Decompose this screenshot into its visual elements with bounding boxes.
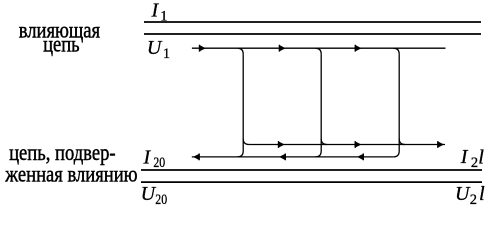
svg-text:1: 1 [163, 46, 170, 62]
svg-text:U: U [147, 37, 163, 59]
svg-text:I: I [460, 146, 469, 168]
svg-text:2: 2 [470, 192, 477, 208]
label U2l [455, 183, 485, 208]
svg-text:20: 20 [155, 192, 167, 208]
svg-text:I: I [151, 0, 160, 22]
label I20 [143, 146, 166, 171]
label I1 [151, 0, 168, 24]
svg-text:2: 2 [471, 155, 478, 171]
coupling branch 1: curve to backward (left) line [237, 151, 243, 157]
coupling branch 2: curve to forward (right) line [321, 139, 327, 145]
coupling branch 2: vertical wire [320, 54, 322, 151]
arrow left on backward line 2 [279, 154, 286, 161]
wire: top conductor 1 of influencing circuit [144, 21, 481, 23]
wire: bottom conductor 2 of influenced circuit [141, 181, 482, 183]
svg-text:l: l [478, 146, 484, 168]
svg-text:цепь: цепь [43, 31, 80, 58]
arrow left on backward line 1 [193, 154, 200, 161]
wire: top conductor 2 of influencing circuit [144, 33, 481, 35]
svg-text:женная влиянию: женная влиянию [4, 160, 137, 187]
label I2l [460, 146, 484, 171]
label: влияющая цепь (influencing circuit) [19, 16, 101, 57]
arrow right on influencing flow line 2 [279, 45, 286, 52]
svg-text:U: U [141, 183, 157, 205]
coupling branch 3: curve from influencing line [393, 48, 399, 54]
coupling branch 3: vertical wire [398, 54, 400, 151]
arrow left on backward line 3 [357, 154, 364, 161]
arrow right on forward line 3 [437, 141, 444, 148]
wire: backward (near-end) coupled flow line [192, 156, 393, 158]
wire: energy flow line in influencing circuit [192, 47, 446, 49]
coupling branch 2: curve to backward (left) line [315, 151, 321, 157]
label U20 [141, 183, 168, 208]
coupling branch 1: vertical wire [242, 54, 244, 151]
coupling branch 1: curve from influencing line [237, 48, 243, 54]
wire: forward (far-end) coupled flow line [249, 144, 445, 146]
arrow right on forward line 2 [355, 141, 362, 148]
wire: bottom conductor 1 of influenced circuit [141, 169, 482, 171]
svg-text:I: I [143, 146, 152, 168]
arrow right on influencing flow line 3 [355, 45, 362, 52]
svg-text:20: 20 [153, 155, 165, 171]
label: цепь, подверженная влиянию (circuit subject to influence) [4, 139, 137, 187]
coupling branch 2: curve from influencing line [315, 48, 321, 54]
coupling branch 1: curve to forward (right) line [243, 139, 249, 145]
arrow right on forward line 1 [278, 141, 285, 148]
label U1 [147, 37, 170, 62]
coupling branch 3: curve to backward (left) line [393, 151, 399, 157]
coupling branch 3: curve to forward (right) line [399, 139, 405, 145]
svg-text:U: U [455, 183, 471, 205]
svg-text:l: l [479, 183, 485, 205]
arrow right on influencing flow line 1 [199, 45, 206, 52]
